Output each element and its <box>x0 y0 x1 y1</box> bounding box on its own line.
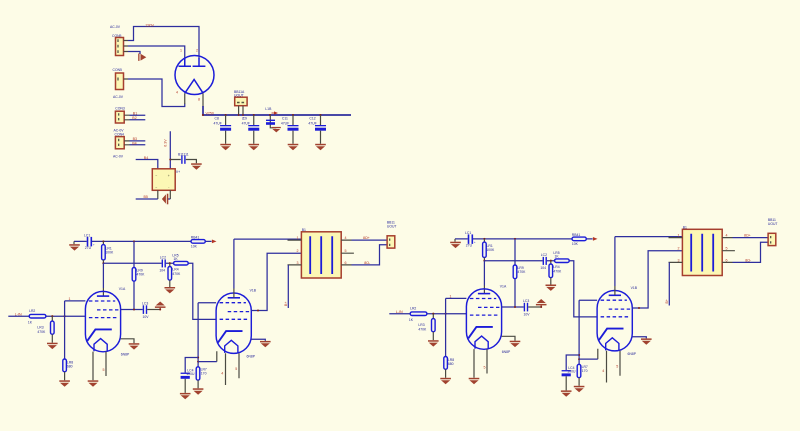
svg-text:B2: B2 <box>132 116 136 120</box>
svg-text:47UF: 47UF <box>242 121 250 125</box>
svg-text:104: 104 <box>159 269 165 273</box>
svg-text:3: 3 <box>297 261 299 265</box>
svg-text:8Ω+: 8Ω+ <box>363 236 370 240</box>
svg-text:6.3V: 6.3V <box>163 139 167 147</box>
svg-text:100K: 100K <box>105 250 114 254</box>
svg-text:47UF: 47UF <box>281 121 289 125</box>
svg-text:B1: B1 <box>302 228 306 232</box>
svg-text:8: 8 <box>198 98 200 102</box>
svg-text:+: + <box>93 242 95 246</box>
svg-text:V+: V+ <box>176 170 180 174</box>
svg-text:6: 6 <box>345 261 347 265</box>
svg-text:47UF: 47UF <box>308 121 316 125</box>
svg-text:AC-0V: AC-0V <box>110 25 121 29</box>
svg-text:470K: 470K <box>137 273 146 277</box>
svg-text:1: 1 <box>180 49 182 53</box>
svg-text:B11111: B11111 <box>178 152 189 156</box>
svg-text:470K: 470K <box>172 272 181 276</box>
svg-text:10K: 10K <box>191 244 198 248</box>
svg-text:170: 170 <box>201 371 207 375</box>
svg-text:~: ~ <box>155 186 157 190</box>
svg-text:230V: 230V <box>146 24 155 28</box>
svg-text:10V: 10V <box>143 315 150 319</box>
svg-text:100U: 100U <box>186 372 195 376</box>
svg-text:27U: 27U <box>85 246 92 250</box>
svg-text:5: 5 <box>235 367 237 371</box>
svg-text:CON3: CON3 <box>115 106 125 110</box>
svg-text:8Ω-: 8Ω- <box>364 261 371 265</box>
svg-text:CON5: CON5 <box>113 68 123 72</box>
svg-text:C11: C11 <box>282 116 288 120</box>
svg-text:1: 1 <box>297 236 299 240</box>
svg-text:V1A: V1A <box>119 287 126 291</box>
svg-text:4: 4 <box>176 91 178 95</box>
svg-text:L1B: L1B <box>265 107 272 111</box>
svg-text:B4: B4 <box>144 156 148 160</box>
svg-text:B5: B5 <box>144 195 148 199</box>
svg-text:B4: B4 <box>132 141 136 145</box>
svg-text:-: - <box>168 186 169 190</box>
svg-text:C8: C8 <box>215 116 219 120</box>
svg-text:C9: C9 <box>243 116 247 120</box>
svg-text:1: 1 <box>69 297 71 301</box>
svg-text:6N8P: 6N8P <box>247 355 256 359</box>
svg-text:AC-0V: AC-0V <box>113 95 124 99</box>
svg-text:4: 4 <box>221 372 223 376</box>
svg-text:+: + <box>168 174 170 178</box>
svg-text:V250: V250 <box>206 111 214 115</box>
svg-text:4: 4 <box>345 236 347 240</box>
svg-text:LC2: LC2 <box>160 255 166 259</box>
svg-text:LR4: LR4 <box>172 267 178 271</box>
svg-text:470K: 470K <box>37 330 46 334</box>
svg-text:1K: 1K <box>174 257 179 261</box>
svg-text:680: 680 <box>67 365 73 369</box>
svg-text:UOUT: UOUT <box>387 225 397 229</box>
svg-text:B1: B1 <box>133 111 137 115</box>
svg-text:47UF: 47UF <box>214 121 222 125</box>
svg-text:LC3: LC3 <box>142 301 148 305</box>
svg-text:RB41: RB41 <box>191 235 200 239</box>
svg-text:C12: C12 <box>309 116 315 120</box>
svg-text:6N8P: 6N8P <box>121 353 130 357</box>
svg-text:LR3: LR3 <box>37 326 43 330</box>
svg-text:LC1: LC1 <box>84 233 90 237</box>
svg-text:1K: 1K <box>28 321 33 325</box>
svg-text:B+: B+ <box>284 302 288 307</box>
svg-text:LR2: LR2 <box>29 309 35 313</box>
svg-text:V1B: V1B <box>250 288 257 292</box>
svg-text:AC-0V: AC-0V <box>113 155 124 159</box>
svg-text:5: 5 <box>103 368 105 372</box>
svg-text:~: ~ <box>155 174 157 178</box>
svg-text:5: 5 <box>345 249 347 253</box>
svg-text:2: 2 <box>297 249 299 253</box>
svg-text:2: 2 <box>196 49 198 53</box>
